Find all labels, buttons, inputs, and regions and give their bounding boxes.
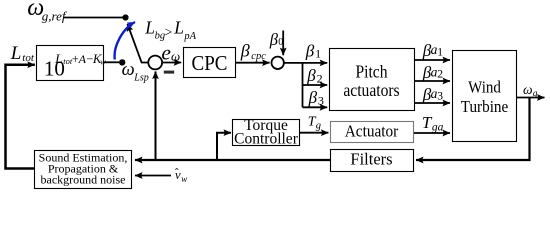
svg-text:Turbine: Turbine [461,98,509,116]
svg-text:0: 0 [278,37,283,48]
svg-text:w: w [181,174,187,184]
svg-text:tot: tot [22,52,35,64]
svg-text:ω: ω [523,82,533,97]
svg-text:ga: ga [432,121,444,133]
svg-text:g: g [316,120,321,131]
svg-text:2: 2 [317,71,323,85]
svg-text:cpc: cpc [251,51,266,62]
svg-text:actuators: actuators [343,80,399,100]
svg-text:β: β [305,41,315,60]
svg-text:3: 3 [437,90,443,102]
svg-text:ˆ: ˆ [175,168,179,180]
svg-text:CPC: CPC [192,52,228,75]
svg-text:L: L [10,43,22,64]
svg-text:w: w [100,56,106,66]
svg-text:β: β [308,88,318,107]
svg-text:Actuator: Actuator [345,122,399,141]
svg-text:g: g [533,89,538,99]
svg-text:ω: ω [171,48,180,63]
svg-text:Wind: Wind [468,79,501,97]
svg-text:Pitch: Pitch [355,62,388,82]
svg-text:L: L [54,51,62,66]
svg-text:2: 2 [437,68,443,80]
svg-text:1: 1 [437,46,443,58]
svg-text:pA: pA [183,31,196,42]
svg-text:e: e [161,41,171,65]
svg-text:Filters: Filters [350,150,392,169]
svg-text:L: L [144,17,155,37]
svg-text:β: β [306,66,316,85]
svg-text:3: 3 [318,93,324,107]
svg-text:L: L [173,17,184,37]
svg-text:β: β [269,30,279,49]
svg-text:Lsp: Lsp [133,73,148,84]
svg-text:ω: ω [122,60,135,80]
svg-text:β: β [240,40,250,60]
svg-text:>: > [165,24,173,39]
svg-text:Controller: Controller [234,131,299,148]
svg-text:g,ref: g,ref [42,8,68,23]
svg-text:1: 1 [315,47,321,61]
svg-text:background noise: background noise [41,173,126,187]
